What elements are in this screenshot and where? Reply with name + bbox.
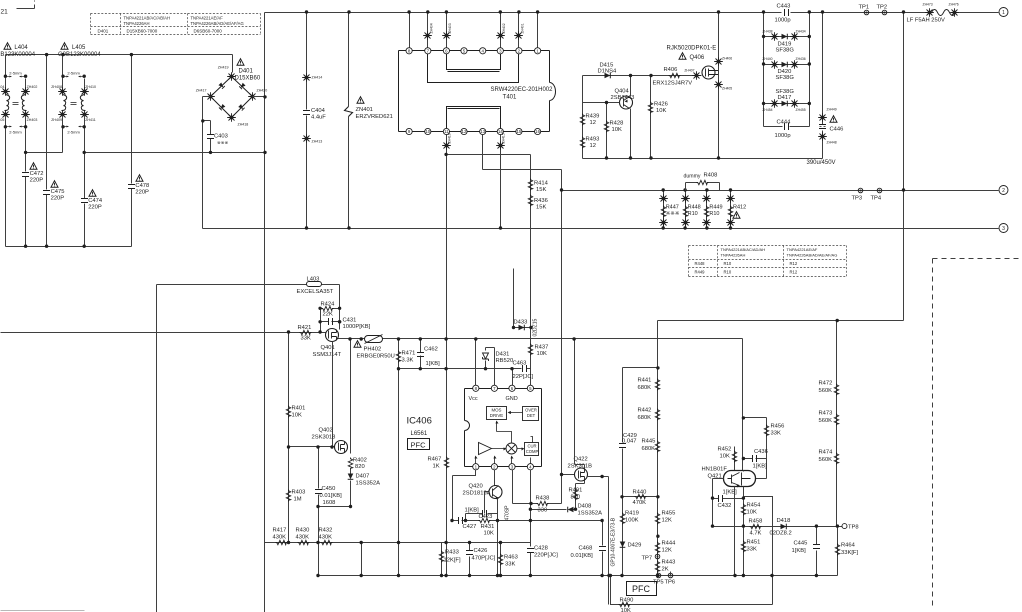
- svg-text:R448: R448: [688, 205, 701, 211]
- capacitor C431: [321, 321, 340, 323]
- op-amp U: IC406 L6561 PFC controller: [465, 389, 542, 467]
- svg-text:R451: R451: [747, 540, 761, 546]
- test point TP2: [882, 10, 887, 15]
- capacitor C462: [420, 339, 422, 369]
- svg-text:560K: 560K: [819, 457, 833, 463]
- zener D418 02DZ8.2: [781, 524, 787, 530]
- svg-text:10K: 10K: [484, 531, 494, 537]
- svg-text:R472: R472: [819, 381, 833, 387]
- svg-text:100K: 100K: [625, 518, 639, 524]
- svg-text:R439: R439: [586, 114, 600, 120]
- svg-text:R402: R402: [353, 458, 367, 464]
- diode D417: [764, 103, 810, 105]
- svg-text:ZH436: ZH436: [796, 57, 806, 61]
- wire y520 extension: [576, 520, 603, 522]
- svg-text:R414: R414: [534, 181, 549, 187]
- surge absorber ZN401: [348, 13, 350, 229]
- svg-text:※※※: ※※※: [666, 210, 680, 217]
- diode D420: [764, 64, 810, 66]
- wire Vcc pin8 column: [475, 339, 477, 386]
- svg-text:ZH411: ZH411: [85, 118, 96, 122]
- wire L405 left winding top: [62, 55, 64, 91]
- svg-text:ZH415: ZH415: [502, 133, 506, 143]
- svg-text:2-5mm: 2-5mm: [9, 71, 22, 76]
- svg-text:22K: 22K: [323, 312, 333, 318]
- svg-text:1000p: 1000p: [775, 133, 791, 139]
- svg-text:10K: 10K: [537, 351, 547, 357]
- svg-text:R443: R443: [662, 560, 676, 566]
- svg-text:LF F5AH 250V: LF F5AH 250V: [907, 18, 945, 24]
- svg-text:ZH404: ZH404: [0, 85, 4, 89]
- wire pin14 column: [500, 135, 502, 229]
- svg-text:R458: R458: [749, 519, 763, 525]
- svg-text:560K: 560K: [819, 388, 833, 394]
- transistor Q401 SSM3J14T: [326, 329, 339, 342]
- svg-text:R437: R437: [535, 345, 549, 351]
- svg-text:R473: R473: [819, 411, 833, 417]
- svg-text:C446: C446: [830, 127, 844, 133]
- svg-text:15K: 15K: [536, 205, 546, 211]
- svg-text:820: 820: [571, 495, 581, 501]
- capacitor C478: [131, 55, 133, 247]
- svg-text:R449: R449: [695, 270, 706, 275]
- resistor R472: [834, 384, 838, 396]
- svg-text:D401: D401: [239, 69, 254, 75]
- svg-text:R424: R424: [321, 302, 336, 308]
- wire output (2) line: [562, 190, 999, 192]
- wire Q420 emitter down: [497, 499, 499, 576]
- svg-text:C404: C404: [311, 108, 326, 114]
- svg-text:SRW4220EC-201H002: SRW4220EC-201H002: [491, 87, 554, 93]
- svg-text:33K: 33K: [771, 431, 781, 437]
- svg-text:PFC: PFC: [411, 441, 427, 450]
- resistor R439: [580, 114, 584, 126]
- svg-text:D408: D408: [578, 504, 592, 510]
- svg-text:D1NS4: D1NS4: [598, 69, 617, 75]
- svg-text:C426: C426: [474, 548, 488, 554]
- resistor R467: [444, 457, 448, 469]
- svg-text:10K: 10K: [612, 127, 622, 133]
- wire AC-out vertical (bridge +): [264, 13, 266, 612]
- capacitor C427 + resistor R431 line: [453, 520, 576, 522]
- svg-text:TNPA4221AE/AF: TNPA4221AE/AF: [787, 247, 818, 252]
- svg-text:R401: R401: [292, 406, 306, 412]
- capacitor C446 column: [822, 13, 824, 159]
- svg-text:C474: C474: [88, 198, 103, 204]
- IC internal OVER DET block: [523, 407, 539, 421]
- svg-text:ZH402: ZH402: [27, 85, 38, 89]
- svg-text:2SK3018: 2SK3018: [312, 435, 336, 441]
- svg-text:0.01[KB]: 0.01[KB]: [320, 493, 343, 499]
- test point TP8: [842, 524, 847, 529]
- svg-text:R406: R406: [664, 67, 678, 73]
- svg-text:R445: R445: [642, 439, 656, 445]
- svg-text:R455: R455: [662, 511, 676, 517]
- svg-text:D417: D417: [778, 95, 792, 101]
- wire multiplier column x561: [561, 170, 563, 504]
- junction dots gnd rail: [360, 574, 363, 577]
- wire AC line A (top): [6, 55, 233, 73]
- wire 390V feedback line: [658, 13, 904, 321]
- svg-text:2K: 2K: [662, 567, 669, 573]
- svg-text:※※※: ※※※: [217, 140, 229, 145]
- svg-text:220P: 220P: [30, 178, 44, 184]
- wire AC line B (choke bottoms): [26, 152, 265, 154]
- resistor R430: [298, 540, 310, 544]
- svg-text:ZH419: ZH419: [218, 66, 229, 70]
- svg-text:R444: R444: [662, 541, 677, 547]
- junction dots PFC area: [348, 337, 351, 340]
- resistor R436: [528, 195, 532, 207]
- capacitor C436: [744, 458, 767, 460]
- wire transformer primary feeds: [409, 13, 411, 48]
- svg-text:ZH476: ZH476: [949, 3, 959, 7]
- resistor R451: [741, 541, 745, 553]
- svg-text:560K: 560K: [819, 418, 833, 424]
- svg-text:R431: R431: [481, 524, 495, 530]
- svg-text:1SS352A: 1SS352A: [356, 481, 381, 487]
- wire TP6 stub: [670, 572, 672, 576]
- svg-text:680K: 680K: [638, 415, 652, 421]
- svg-text:Q420: Q420: [469, 484, 483, 490]
- svg-text:R447: R447: [666, 205, 679, 211]
- wire transformer link pins 11-14: [447, 107, 501, 129]
- resistor R471: [398, 339, 400, 576]
- resistor R432: [321, 540, 333, 544]
- resistor R449: [706, 191, 708, 229]
- svg-text:R417: R417: [273, 528, 287, 534]
- wire Vcc rail: [337, 339, 743, 472]
- resistor R442: [655, 409, 659, 421]
- svg-text:10K: 10K: [621, 608, 631, 612]
- svg-text:R10: R10: [709, 211, 719, 217]
- wire output (3) line: [203, 228, 999, 230]
- capacitor C450: [318, 447, 320, 576]
- svg-text:Q406: Q406: [690, 55, 705, 61]
- resistor R421: [300, 330, 312, 334]
- svg-text:OVER: OVER: [525, 408, 537, 413]
- svg-text:R10: R10: [688, 211, 698, 217]
- IC internal links: [476, 422, 533, 464]
- wire C429 column: [622, 368, 624, 576]
- svg-text:R490: R490: [620, 598, 634, 604]
- diode D419: [764, 36, 810, 38]
- svg-text:1[KB]: 1[KB]: [426, 361, 441, 367]
- svg-text:12: 12: [590, 120, 596, 126]
- IC internal comparator block: [525, 443, 539, 456]
- capacitor C403: [203, 121, 211, 153]
- svg-text:TP1: TP1: [859, 5, 870, 11]
- svg-text:R419: R419: [625, 511, 639, 517]
- svg-text:2-5mm: 2-5mm: [9, 130, 22, 135]
- wire DC+ top rail: [265, 12, 782, 14]
- resistor R419: [620, 513, 624, 525]
- resistor R452: [734, 447, 736, 472]
- svg-text:C475: C475: [51, 189, 65, 195]
- svg-text:ZH408: ZH408: [51, 85, 62, 89]
- capacitor C443: [785, 9, 789, 16]
- svg-text:TNPA4226AH: TNPA4226AH: [721, 253, 746, 258]
- wire Q422 source: [576, 481, 585, 487]
- junction dots bridge: [201, 119, 204, 122]
- svg-text:21: 21: [1, 9, 9, 16]
- svg-text:ZH434: ZH434: [796, 30, 806, 34]
- svg-text:R463: R463: [504, 555, 518, 561]
- wire R417/R430/R432 line: [265, 542, 531, 544]
- svg-text:430K: 430K: [319, 535, 333, 541]
- svg-text:22P[JC]: 22P[JC]: [513, 374, 534, 380]
- junction dots diode stack: [762, 35, 765, 38]
- svg-text:D401: D401: [98, 29, 109, 34]
- svg-text:SF38G: SF38G: [776, 75, 795, 81]
- wire pin1 loop: [453, 470, 476, 521]
- wire Q404 emitter/collector: [630, 76, 632, 159]
- svg-text:R12: R12: [790, 261, 798, 266]
- svg-text:2-5mm: 2-5mm: [67, 71, 80, 76]
- svg-text:ZH405: ZH405: [0, 118, 4, 122]
- wire pin 14 lead with surge gap: [496, 141, 505, 150]
- svg-text:SSM3J14T: SSM3J14T: [313, 352, 342, 358]
- wire Q401 drain to rail: [339, 338, 351, 340]
- svg-text:220P: 220P: [88, 205, 102, 211]
- svg-text:R10: R10: [724, 270, 732, 275]
- svg-text:Q422: Q422: [574, 457, 588, 463]
- junction dots Q402 area: [287, 445, 290, 448]
- svg-text:Vcc: Vcc: [469, 396, 478, 402]
- resistor R447: [663, 191, 665, 229]
- wire pin7 column: [486, 348, 495, 386]
- svg-text:ERBGE0R50U: ERBGE0R50U: [357, 354, 395, 360]
- svg-text:1SS352A: 1SS352A: [578, 511, 603, 517]
- svg-text:TP7: TP7: [642, 556, 653, 562]
- svg-text:C436: C436: [754, 449, 768, 455]
- capacitor C445: [816, 527, 818, 576]
- svg-text:C428: C428: [534, 546, 548, 552]
- svg-text:C472: C472: [30, 171, 44, 177]
- wire L405 right winding bottom: [84, 116, 86, 153]
- svg-text:TNPA4226AB/AD/AE/AF/AG: TNPA4226AB/AD/AE/AF/AG: [191, 21, 244, 26]
- wire Q422 source to R490 column: [587, 477, 609, 605]
- wire Q421 emitter: [734, 487, 736, 576]
- svg-text:ZH404: ZH404: [429, 23, 433, 33]
- connector node 1: [999, 8, 1008, 17]
- fuse LF F5AH 250V: [925, 8, 934, 17]
- resistor R464: [837, 527, 839, 576]
- svg-text:1K: 1K: [433, 464, 440, 470]
- svg-text:DRIVE: DRIVE: [490, 413, 503, 418]
- wire L404 left winding bottom: [5, 116, 7, 153]
- svg-text:12: 12: [462, 129, 467, 134]
- resistor R443: [655, 561, 659, 573]
- test point TP1: [864, 10, 869, 15]
- svg-text:4.4uF: 4.4uF: [311, 115, 326, 121]
- capacitor C428: [527, 549, 534, 553]
- svg-text:13: 13: [480, 129, 485, 134]
- svg-text:470SP: 470SP: [505, 505, 511, 521]
- svg-text:D407: D407: [356, 474, 370, 480]
- inductor L403: [307, 282, 322, 287]
- wire gnd sub-rail: [399, 368, 531, 370]
- resistor R456: [764, 425, 768, 437]
- resistor R440: [635, 494, 647, 498]
- svg-text:C444: C444: [777, 120, 792, 126]
- svg-text:2: 2: [1002, 188, 1005, 194]
- svg-text:L405: L405: [72, 45, 86, 51]
- svg-text:R403: R403: [292, 490, 306, 496]
- resistor R433: [441, 543, 443, 576]
- capacitor C429: [619, 444, 626, 448]
- svg-text:33K: 33K: [301, 336, 311, 342]
- wire R426 column: [650, 76, 652, 159]
- wire faint page edge: [1, 610, 85, 612]
- transistor Q406 RJK5020DPK01-E: [702, 66, 715, 79]
- wire L404 left winding top: [5, 55, 7, 91]
- svg-text:ZH418: ZH418: [238, 123, 249, 127]
- IC internal multiplier: [506, 443, 517, 454]
- svg-text:T401: T401: [503, 95, 517, 101]
- resistor R417: [276, 540, 288, 544]
- svg-text:EXCELSA35T: EXCELSA35T: [297, 289, 334, 295]
- junction dots output lines: [902, 188, 905, 191]
- svg-text:220P[JC]: 220P[JC]: [534, 553, 558, 559]
- svg-text:Q402: Q402: [319, 428, 333, 434]
- svg-text:10K: 10K: [292, 413, 302, 419]
- wire Q422 drain to Vcc rail: [575, 339, 585, 469]
- svg-text:ZH402: ZH402: [502, 23, 506, 33]
- svg-text:DET: DET: [527, 413, 536, 418]
- fusible resistor PH402: [365, 336, 383, 343]
- junction dots mid: [529, 502, 532, 505]
- resistor R493: [580, 137, 584, 149]
- wire Q401 collector down: [332, 342, 334, 447]
- resistor R455: [655, 513, 659, 525]
- dashed page boundary: [933, 259, 1022, 607]
- resistor R444: [655, 542, 659, 554]
- svg-text:L404: L404: [14, 45, 28, 51]
- svg-text:ERX12SJ4R7V: ERX12SJ4R7V: [653, 81, 693, 87]
- svg-text:IC406: IC406: [407, 416, 432, 427]
- svg-text:R442: R442: [638, 408, 652, 414]
- wire pin13 column: [483, 135, 562, 170]
- svg-text:R436: R436: [534, 198, 548, 204]
- resistor R403: [286, 490, 290, 502]
- svg-text:ZH454: ZH454: [762, 108, 772, 112]
- resistor R463: [500, 543, 502, 576]
- svg-text:820: 820: [355, 464, 365, 470]
- svg-text:680K: 680K: [642, 446, 656, 452]
- svg-text:2-5mm: 2-5mm: [67, 130, 80, 135]
- svg-text:R491: R491: [569, 488, 583, 494]
- connector node 3: [999, 224, 1008, 233]
- diode stack frame: [764, 13, 810, 127]
- resistor R445: [655, 441, 659, 453]
- svg-text:PH402: PH402: [364, 347, 382, 353]
- wire R428 column: [606, 103, 608, 159]
- capacitor C426: [469, 543, 471, 576]
- test point TP6: [668, 573, 673, 578]
- svg-text:ZH409: ZH409: [51, 118, 62, 122]
- svg-text:R449: R449: [709, 205, 722, 211]
- svg-text:L6561: L6561: [411, 431, 428, 437]
- svg-text:680K: 680K: [638, 385, 652, 391]
- svg-text:HN1B01F: HN1B01F: [702, 467, 728, 473]
- wire bridge left vertex to (3) line: [203, 97, 211, 229]
- svg-text:D429: D429: [628, 543, 642, 549]
- wire L404 left column to ground line: [5, 153, 7, 247]
- svg-text:220P: 220P: [135, 190, 149, 196]
- wire R424/C431 left leg: [320, 309, 322, 333]
- svg-text:Q404: Q404: [615, 89, 630, 95]
- capacitor C423: [466, 514, 498, 521]
- svg-text:ZH403: ZH403: [27, 118, 38, 122]
- wire pin3 column: [513, 470, 531, 504]
- svg-text:R454: R454: [747, 503, 762, 509]
- svg-text:ZH417: ZH417: [196, 89, 207, 93]
- svg-text:C403: C403: [214, 134, 228, 140]
- capacitor C404: [306, 13, 308, 229]
- svg-text:ZH440: ZH440: [762, 57, 772, 61]
- capacitor C444: [764, 126, 810, 128]
- wire L405 right winding top: [84, 79, 86, 91]
- test point TP7: [655, 554, 660, 559]
- wire snubber top line: [583, 75, 702, 77]
- svg-text:1000p: 1000p: [775, 18, 791, 24]
- svg-text:R456: R456: [771, 424, 785, 430]
- wire pin 11 lead with surge gap: [442, 141, 451, 150]
- svg-text:CUR: CUR: [527, 444, 536, 449]
- svg-text:TP4: TP4: [871, 196, 882, 202]
- svg-text:TNPA4226AB/AD/AE/AF/AG: TNPA4226AB/AD/AE/AF/AG: [787, 253, 838, 258]
- svg-text:0.047: 0.047: [622, 439, 637, 445]
- diode D415: [605, 73, 611, 79]
- wire Q422 gate: [562, 474, 575, 476]
- transistor Q404 2SB1443: [620, 96, 633, 109]
- transistor Q421 HN1B01F (digital): [724, 471, 756, 487]
- wire 390u/450V negative line: [583, 158, 823, 160]
- svg-text:R421: R421: [298, 325, 312, 331]
- wire TP8 line: [713, 526, 843, 528]
- diode D408 1SS352A: [531, 509, 576, 511]
- svg-text:R438: R438: [536, 496, 550, 502]
- svg-text:C468: C468: [579, 546, 593, 552]
- wire 560K divider: [836, 321, 838, 527]
- svg-text:12: 12: [590, 143, 596, 149]
- svg-text:C450: C450: [322, 486, 336, 492]
- svg-text:ZH449: ZH449: [827, 108, 837, 112]
- svg-text:ERZVRED621: ERZVRED621: [356, 114, 393, 120]
- wire L403 feed: [157, 285, 340, 309]
- svg-text:3: 3: [1002, 226, 1005, 232]
- svg-text:R474: R474: [819, 450, 834, 456]
- svg-text:PFC: PFC: [632, 584, 651, 594]
- svg-text:10K: 10K: [720, 454, 730, 460]
- junction dots snubber area: [629, 74, 632, 77]
- svg-text:TP8: TP8: [848, 525, 859, 531]
- svg-text:ZH403: ZH403: [448, 23, 452, 33]
- svg-text:R10: R10: [724, 261, 732, 266]
- wire R490 return: [611, 497, 773, 605]
- svg-text:TP5: TP5: [653, 580, 664, 586]
- svg-text:ZH405: ZH405: [722, 87, 732, 91]
- wire Q420 base stub: [485, 492, 489, 514]
- resistor R454: [741, 504, 745, 516]
- diode D407 1SS352A: [350, 470, 352, 474]
- resistor R406: [669, 73, 681, 77]
- resistor R402: [348, 458, 352, 470]
- svg-text:220P: 220P: [51, 196, 65, 202]
- svg-text:15: 15: [516, 129, 521, 134]
- svg-text:1608: 1608: [323, 500, 336, 506]
